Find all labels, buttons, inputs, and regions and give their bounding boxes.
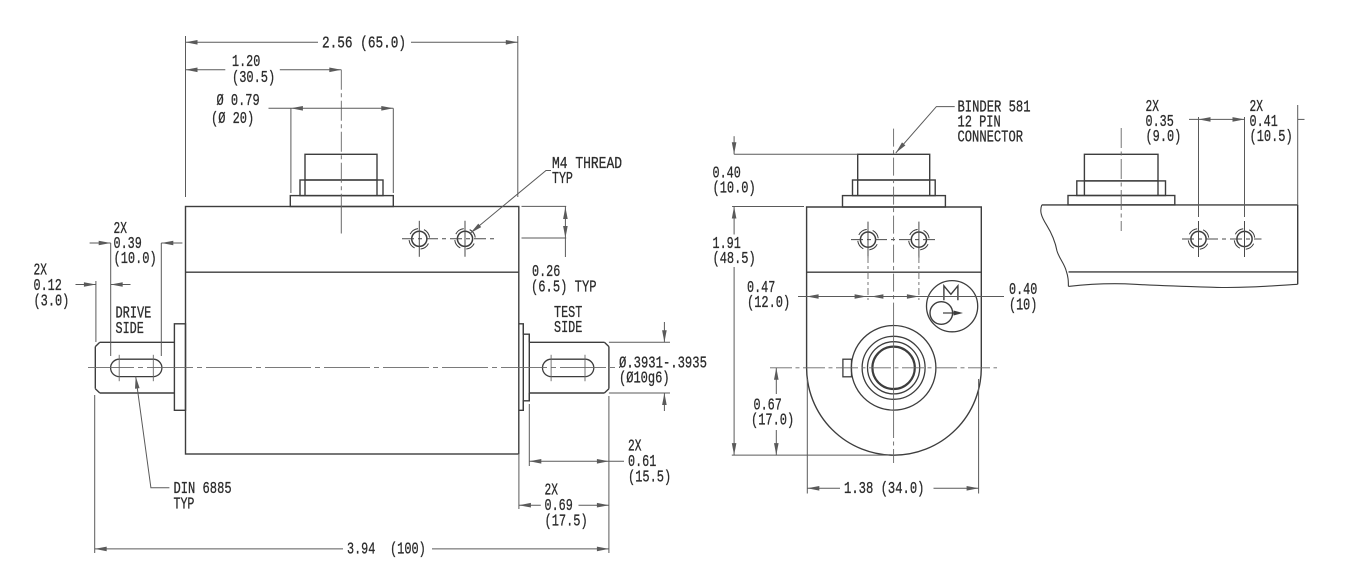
svg-text:(10.0): (10.0)	[114, 249, 157, 268]
svg-text:3.94: 3.94	[347, 540, 375, 559]
svg-text:(17.5): (17.5)	[545, 512, 588, 531]
svg-text:(10.5): (10.5)	[1250, 127, 1293, 146]
svg-text:(Ø 20): (Ø 20)	[211, 109, 254, 128]
svg-text:SIDE: SIDE	[554, 318, 582, 337]
svg-text:SIDE: SIDE	[116, 319, 144, 338]
svg-text:TYP: TYP	[174, 495, 195, 514]
svg-text:(48.5): (48.5)	[713, 249, 756, 268]
svg-text:(Ø10g6): (Ø10g6)	[619, 369, 670, 388]
svg-text:(10.0): (10.0)	[713, 179, 756, 198]
svg-text:CONNECTOR: CONNECTOR	[958, 128, 1024, 147]
svg-text:(6.5) TYP: (6.5) TYP	[531, 278, 597, 297]
svg-text:(3.0): (3.0)	[34, 292, 70, 311]
svg-text:(17.0): (17.0)	[751, 411, 794, 430]
svg-text:(10): (10)	[1009, 296, 1037, 315]
svg-text:Ø 0.79: Ø 0.79	[217, 91, 260, 110]
svg-text:(9.0): (9.0)	[1146, 127, 1182, 146]
svg-text:TYP: TYP	[552, 169, 573, 188]
svg-text:(12.0): (12.0)	[747, 293, 790, 312]
svg-text:(100): (100)	[390, 540, 426, 559]
svg-text:(30.5): (30.5)	[232, 68, 275, 87]
svg-text:2.56 (65.0): 2.56 (65.0)	[322, 34, 406, 53]
svg-text:1.38 (34.0): 1.38 (34.0)	[844, 479, 925, 498]
svg-text:(15.5): (15.5)	[628, 468, 671, 487]
